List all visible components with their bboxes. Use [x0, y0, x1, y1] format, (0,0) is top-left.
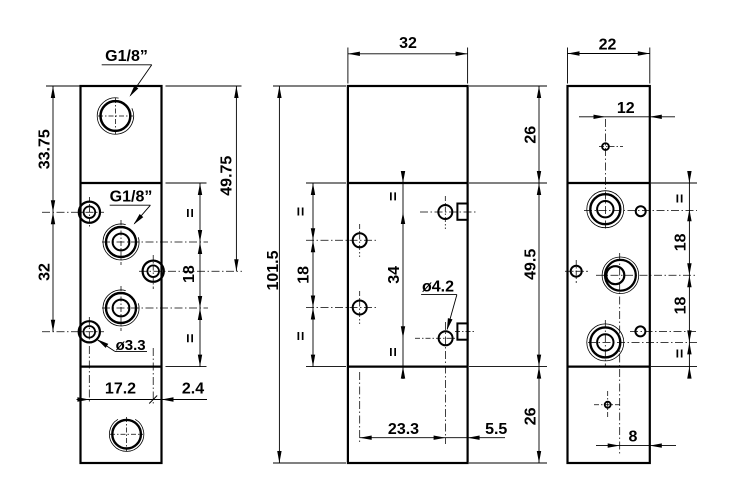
- mounting hole mid-right o3.3: [143, 261, 164, 282]
- port G1/8 middle hole A: [106, 227, 136, 257]
- right view outline: [568, 86, 650, 463]
- row3 small centerline: [630, 330, 697, 332]
- svg-text:2.4: 2.4: [182, 381, 204, 398]
- right view divider top: [568, 182, 650, 184]
- svg-text:26: 26: [522, 407, 539, 425]
- svg-text:32: 32: [36, 263, 53, 281]
- dimension 23.3 and 5.5: [360, 437, 505, 439]
- dimension 32 top: [347, 48, 349, 84]
- row2 centerline horizontal: [596, 274, 697, 276]
- port A centerline horizontal: [102, 241, 208, 243]
- dimension chain equal-18-18-equal right view: [651, 182, 697, 184]
- svg-text:18: 18: [673, 233, 690, 251]
- pilot hole top: [602, 143, 609, 150]
- left view port face divider top: [81, 182, 162, 184]
- port B centerline horizontal: [102, 307, 208, 309]
- svg-text:49.5: 49.5: [522, 249, 539, 280]
- pilot hole bottom: [605, 402, 611, 408]
- port G1/8 top hole: [101, 101, 131, 131]
- dimension chain equal-34-equal inner: [402, 171, 404, 379]
- dimension 12: [579, 116, 675, 118]
- centerline A vertical: [605, 119, 607, 230]
- row3 centerline horizontal: [588, 341, 697, 343]
- port cluster row2 inner offset: [606, 266, 624, 284]
- port G1/8 middle hole B: [106, 293, 136, 323]
- dimension chain equal-18-equal middle view: [306, 182, 346, 184]
- svg-text:ø4.2: ø4.2: [422, 279, 454, 296]
- svg-text:34: 34: [386, 266, 403, 284]
- port B centerline vertical: [120, 286, 122, 331]
- hole o4.2 left lower extension: [359, 372, 361, 444]
- dimension chain 26-49.5-26: [469, 85, 547, 87]
- hole o4.2 left lower: [353, 301, 367, 315]
- svg-text:G1/8”: G1/8”: [105, 48, 148, 65]
- svg-text:=: =: [183, 334, 200, 343]
- svg-text:=: =: [293, 331, 310, 340]
- port hole row1 large: [590, 194, 620, 224]
- centerline B vertical: [619, 253, 621, 455]
- svg-text:18: 18: [295, 266, 312, 284]
- svg-text:101.5: 101.5: [265, 250, 282, 290]
- svg-text:=: =: [672, 349, 689, 358]
- port G1/8 bottom hole: [112, 420, 141, 449]
- dimension 33.75: [46, 85, 81, 87]
- mounting hole top-left centerlines: [42, 211, 104, 213]
- dimension chain equal-18-equal left view: [166, 182, 207, 184]
- middle view divider bottom: [348, 366, 468, 368]
- dimension 22: [567, 48, 569, 84]
- dimension 49.75: [166, 85, 242, 87]
- mounting hole mid-right centerlines: [139, 270, 242, 272]
- small hole row2 left: [571, 266, 582, 277]
- mounting hole bottom-left centerlines: [42, 331, 104, 333]
- port hole row3 large: [590, 327, 620, 357]
- svg-text:22: 22: [599, 37, 617, 54]
- row1 centerline horizontal: [584, 210, 697, 212]
- svg-text:G1/8”: G1/8”: [110, 189, 153, 206]
- svg-text:26: 26: [522, 126, 539, 144]
- hole o4.2 right lower: [439, 331, 453, 345]
- svg-text:=: =: [385, 347, 402, 356]
- svg-text:23.3: 23.3: [388, 421, 419, 438]
- mounting hole bottom-left o3.3: [79, 321, 100, 342]
- middle view divider top: [348, 182, 468, 184]
- dimension 101.5: [273, 85, 346, 87]
- svg-text:=: =: [293, 207, 310, 216]
- svg-text:49.75: 49.75: [218, 156, 235, 196]
- dimension 32 left: [51, 212, 55, 224]
- hole o4.2 left upper: [353, 233, 367, 247]
- port G1/8 top centerlines: [98, 115, 133, 117]
- left view port face divider bottom: [81, 366, 162, 368]
- port bottom centerlines: [110, 433, 143, 435]
- svg-text:8: 8: [629, 429, 638, 446]
- svg-text:=: =: [385, 192, 402, 201]
- side tab notch bottom: [457, 323, 467, 339]
- middle view outline: [348, 86, 468, 463]
- side tab notch top: [457, 204, 467, 220]
- svg-text:18: 18: [181, 265, 198, 283]
- svg-text:32: 32: [399, 35, 417, 52]
- tab bottom centerline: [455, 331, 475, 333]
- svg-text:=: =: [183, 208, 200, 217]
- dimension 8: [596, 445, 676, 447]
- port cluster row2 large: [605, 260, 636, 291]
- dimension 17.2 and 2.4: [77, 399, 208, 401]
- mounting hole top-left o3.3: [79, 202, 100, 223]
- port G1/8 top thread arc: [97, 98, 133, 134]
- port hole row3 small right: [635, 326, 645, 336]
- svg-text:33.75: 33.75: [36, 129, 53, 169]
- svg-text:17.2: 17.2: [105, 381, 136, 398]
- svg-text:12: 12: [617, 100, 635, 117]
- port A centerline vertical: [120, 220, 122, 265]
- port hole row1 small right: [636, 206, 646, 216]
- svg-text:=: =: [672, 194, 689, 203]
- svg-text:5.5: 5.5: [485, 421, 507, 438]
- svg-text:18: 18: [673, 297, 690, 315]
- right view divider bottom: [568, 366, 650, 368]
- hole o4.2 right upper: [438, 205, 452, 219]
- left view outline: [81, 86, 162, 463]
